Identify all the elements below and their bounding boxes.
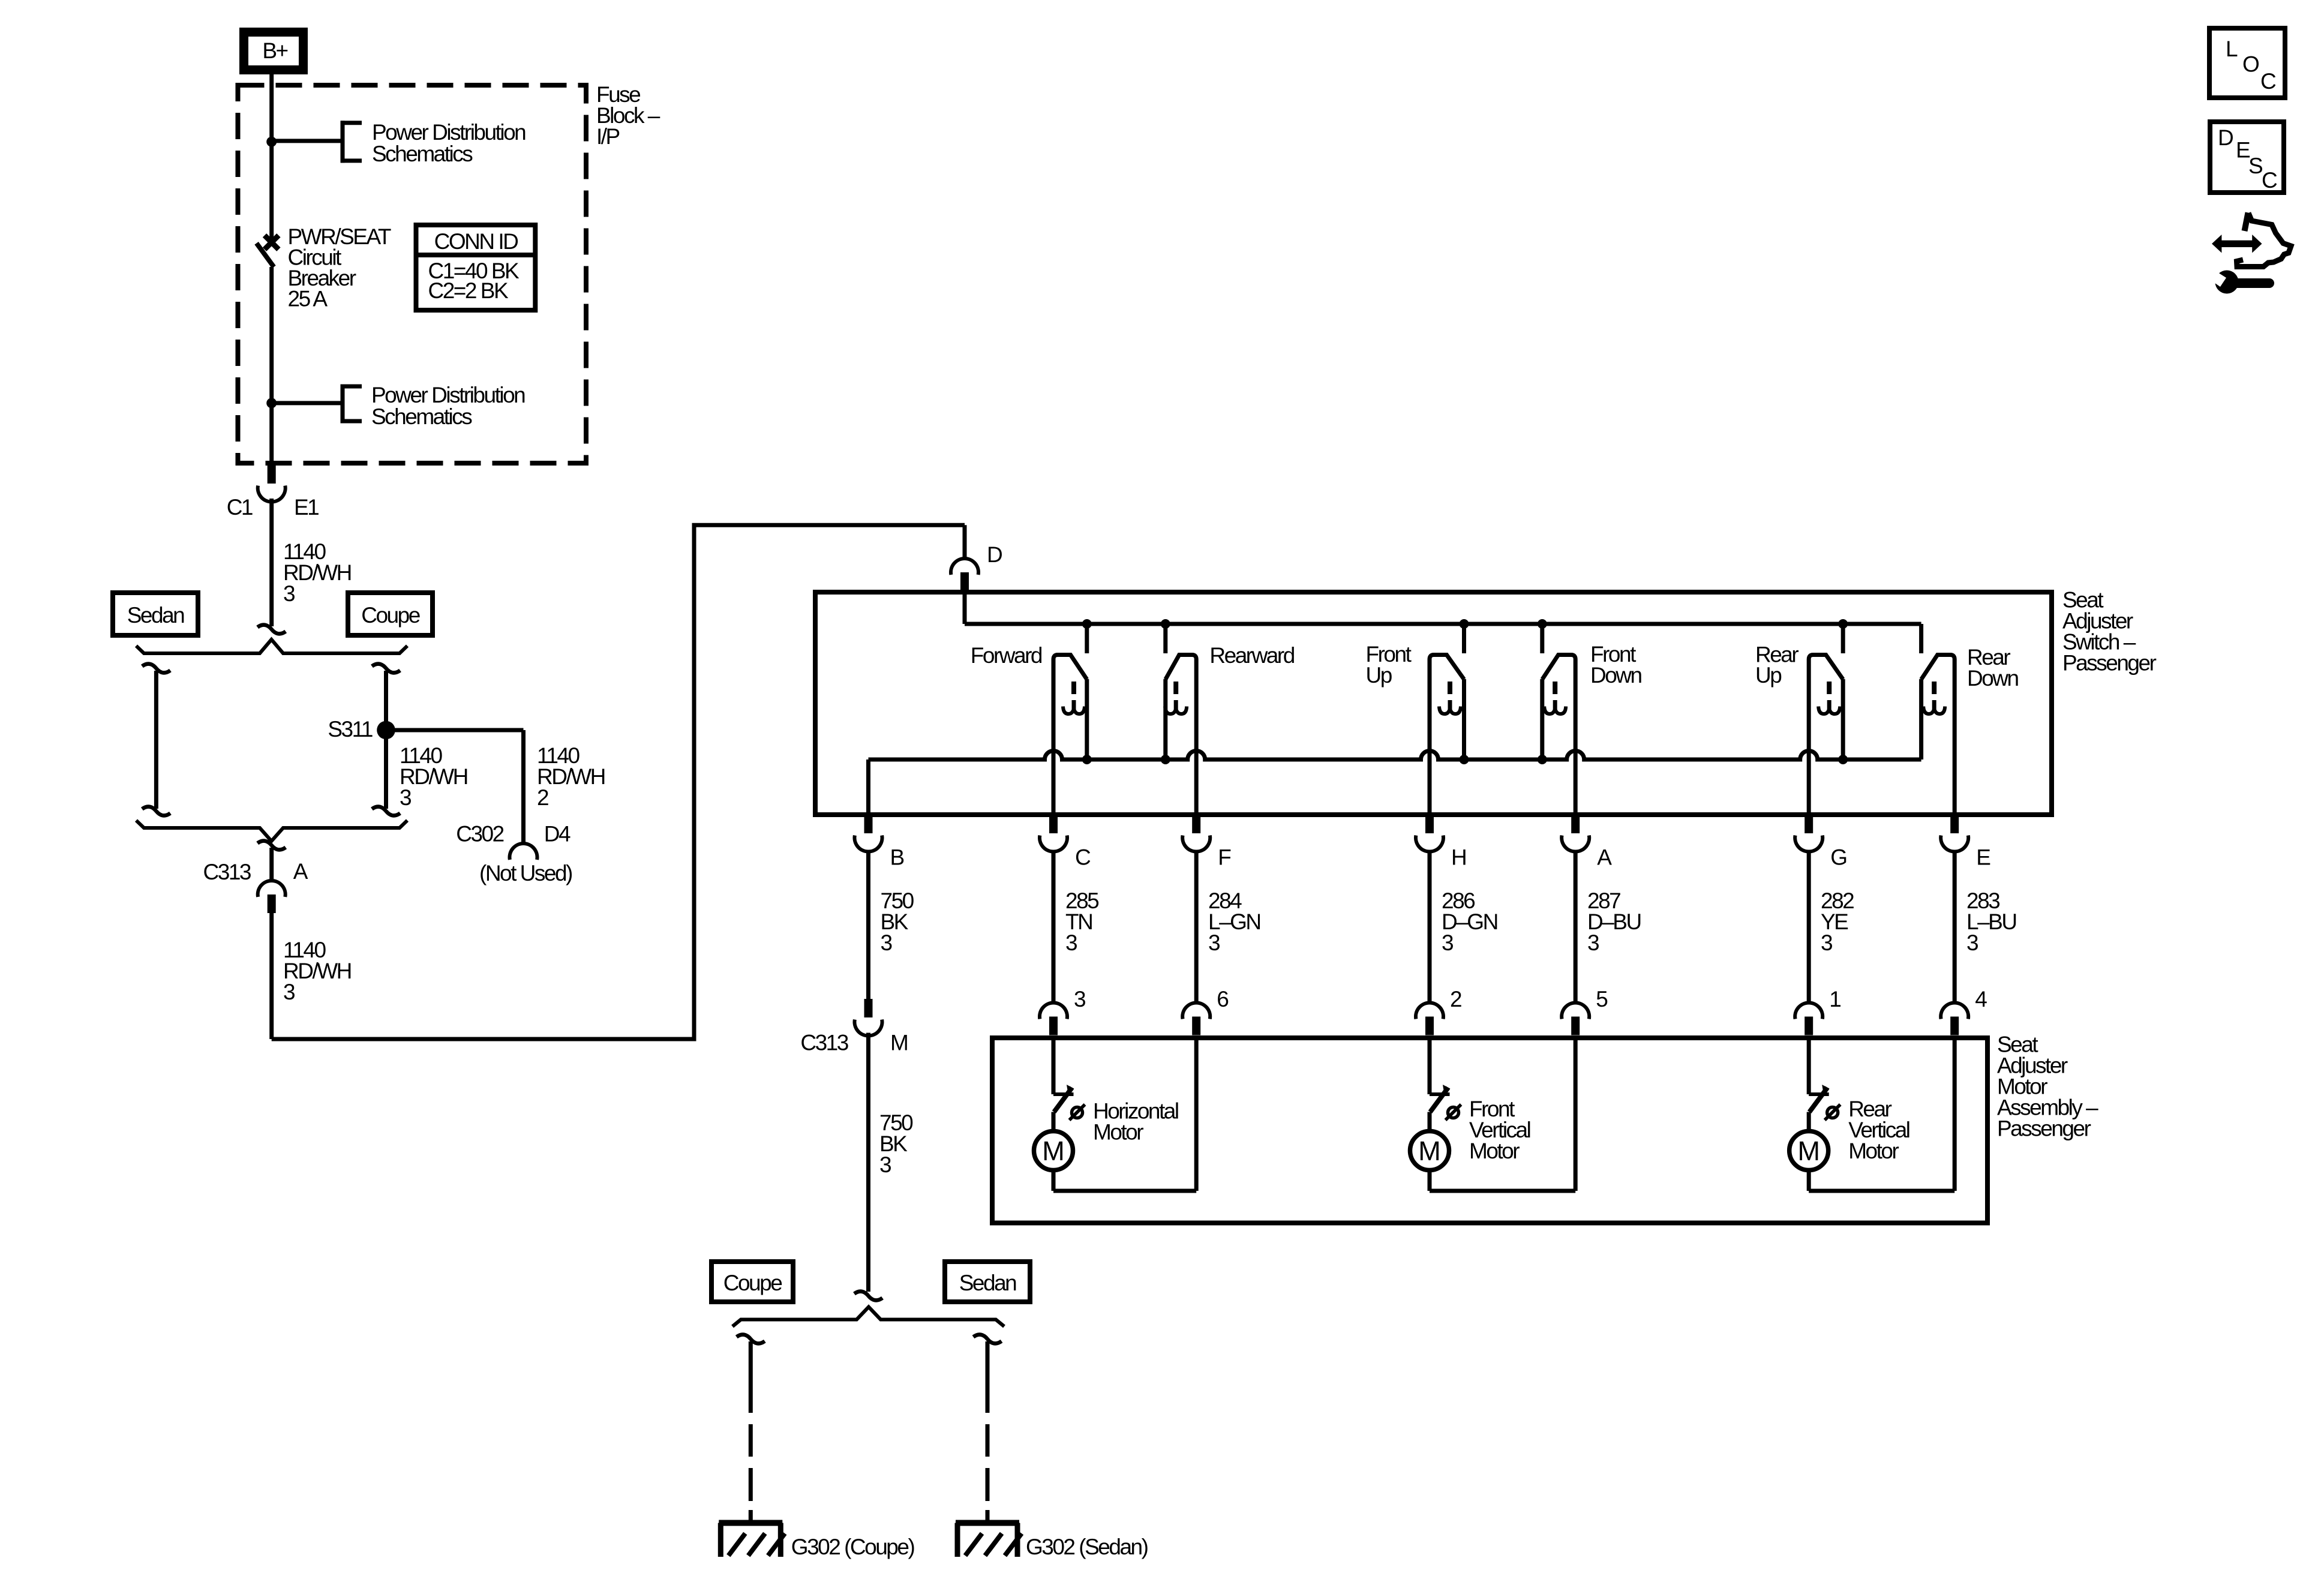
switch Front Up: [1430, 619, 1469, 815]
svg-text:D: D: [987, 542, 1002, 567]
wire S311 branch to C302: [386, 728, 524, 733]
Sedan option box (top): [113, 593, 198, 635]
switch Front Down: [1538, 619, 1575, 815]
option split brace (top): [136, 640, 407, 653]
connector motor assembly pin 6: [1182, 1003, 1210, 1035]
connector C302 D4 (not used): [510, 843, 538, 860]
connector C313/A: [258, 881, 286, 913]
svg-text:Motor: Motor: [1093, 1120, 1143, 1145]
svg-text:2: 2: [1450, 987, 1461, 1011]
svg-text:Forward: Forward: [971, 643, 1042, 668]
wire A to motor assembly: [1574, 851, 1578, 1002]
connector D (seat adjuster switch): [951, 559, 978, 591]
svg-text:3: 3: [1208, 930, 1220, 955]
wire ground branch dash: [986, 1424, 990, 1457]
option split brace (bottom): [732, 1307, 1004, 1327]
svg-text:Coupe: Coupe: [723, 1271, 782, 1295]
option merge brace: [136, 821, 407, 842]
svg-text:C2=2 BK: C2=2 BK: [428, 278, 509, 303]
wire sedan option branch: [154, 671, 158, 809]
svg-text:Motor: Motor: [1469, 1139, 1520, 1163]
wire option-break squiggle: [257, 841, 286, 850]
wire option-break squiggle: [372, 807, 400, 816]
svg-text:3: 3: [881, 930, 892, 955]
wire 1140 RD/WH from C1: [269, 499, 274, 626]
svg-text:Sedan: Sedan: [127, 603, 184, 628]
svg-text:L: L: [2226, 37, 2238, 61]
motor circuit Rear Vertical Motor: [1789, 1035, 1955, 1191]
wire F to motor assembly: [1194, 851, 1199, 1002]
LOC legend box: [2209, 28, 2285, 98]
wire C to motor assembly: [1052, 851, 1056, 1002]
svg-text:2: 2: [537, 785, 548, 810]
svg-text:M: M: [890, 1031, 907, 1055]
wire ground stub: [749, 1510, 753, 1525]
Sedan option box (bottom): [945, 1262, 1030, 1302]
wire D into switch: [963, 591, 967, 625]
svg-text:3: 3: [1966, 930, 1978, 955]
svg-text:3: 3: [283, 980, 295, 1004]
svg-text:Schematics: Schematics: [372, 142, 473, 166]
svg-text:F: F: [1218, 845, 1231, 870]
wrench icon: [2215, 271, 2239, 294]
connector motor assembly pin 3: [1040, 1003, 1067, 1035]
wire down to C302: [521, 730, 526, 845]
wire ground branch dash: [749, 1468, 753, 1501]
wire long run to switch feed D: [272, 525, 965, 1039]
wire 750 BK to C313/M: [866, 851, 870, 999]
switch Rear Down: [1921, 655, 1955, 815]
vehicle motion / service icon: [2211, 213, 2291, 294]
wire H to motor assembly: [1428, 851, 1432, 1002]
connector C2 pin H (switch output): [1416, 815, 1443, 851]
motor circuit Front Vertical Motor: [1410, 1035, 1576, 1191]
svg-text:E: E: [1976, 845, 1990, 870]
wire branch to power distribution (upper): [272, 139, 343, 143]
svg-text:C313: C313: [203, 860, 251, 884]
ground G302 (Coupe): [719, 1523, 785, 1557]
svg-text:3: 3: [400, 785, 411, 810]
svg-text:I/P: I/P: [596, 124, 620, 149]
svg-text:C1: C1: [227, 495, 253, 520]
connector C2 pin G (switch output): [1795, 815, 1822, 851]
wire option-break squiggle: [142, 807, 170, 816]
circuit breaker PWR/SEAT 25A contact X: [265, 235, 278, 249]
wire coupe option branch: [384, 671, 388, 809]
svg-text:D4: D4: [544, 822, 571, 846]
svg-text:3: 3: [283, 581, 295, 606]
CONN ID divider: [416, 253, 536, 257]
seat adjuster switch box: [815, 592, 2052, 815]
svg-text:C: C: [2260, 69, 2276, 94]
svg-text:O: O: [2242, 52, 2259, 76]
svg-text:CONN ID: CONN ID: [434, 229, 518, 254]
svg-text:3: 3: [1442, 930, 1453, 955]
svg-text:3: 3: [1587, 930, 1599, 955]
svg-text:6: 6: [1217, 987, 1228, 1011]
connector C2 pin E (switch output): [1941, 815, 1968, 851]
svg-text:E1: E1: [294, 495, 319, 520]
fuse block dashed border: [238, 85, 587, 463]
svg-text:3: 3: [1065, 930, 1077, 955]
wire ground branch dash: [749, 1424, 753, 1457]
svg-text:B: B: [890, 845, 904, 870]
Coupe option box (bottom): [711, 1262, 793, 1302]
wire option-break squiggle: [737, 1335, 765, 1344]
wire G to motor assembly: [1807, 851, 1811, 1002]
connector C1/E1 (fuse block to harness): [258, 465, 286, 502]
svg-text:Up: Up: [1755, 663, 1782, 688]
svg-text:M: M: [1418, 1136, 1441, 1166]
switch Rearward: [1161, 619, 1196, 815]
B+ battery feed box: [244, 32, 304, 70]
feed stub rear down: [1919, 624, 1923, 653]
svg-text:Schematics: Schematics: [371, 404, 472, 429]
wire option-break squiggle: [142, 664, 170, 673]
connector C2 pin B (switch output): [855, 815, 882, 851]
connector motor assembly pin 4: [1941, 1003, 1968, 1035]
svg-text:C: C: [2262, 168, 2277, 193]
wire option-break squiggle: [257, 625, 286, 634]
svg-text:G: G: [1830, 845, 1846, 870]
wire ground stub: [986, 1510, 990, 1525]
wire 1140 RD/WH below C313: [269, 913, 274, 1040]
wire B+ to circuit breaker: [269, 74, 274, 239]
svg-text:C: C: [1075, 845, 1091, 870]
svg-text:3: 3: [879, 1152, 891, 1177]
svg-text:M: M: [1797, 1136, 1820, 1166]
svg-text:Rearward: Rearward: [1209, 643, 1294, 668]
svg-text:25 A: 25 A: [288, 287, 328, 311]
svg-text:G302 (Sedan): G302 (Sedan): [1026, 1535, 1148, 1559]
splice S311: [377, 721, 395, 740]
svg-text:Coupe: Coupe: [361, 603, 419, 628]
connector motor assembly pin 5: [1562, 1003, 1589, 1035]
svg-text:1: 1: [1829, 987, 1840, 1011]
svg-text:4: 4: [1975, 987, 1987, 1011]
connector motor assembly pin 2: [1416, 1003, 1443, 1035]
svg-text:Passenger: Passenger: [1997, 1116, 2091, 1141]
svg-text:Power Distribution: Power Distribution: [372, 120, 526, 145]
connector C2 pin C (switch output): [1040, 815, 1067, 851]
svg-text:(Not Used): (Not Used): [479, 861, 572, 885]
svg-text:H: H: [1451, 845, 1466, 870]
svg-text:3: 3: [1821, 930, 1832, 955]
svg-text:C313: C313: [800, 1031, 848, 1055]
switch common bus (lower) with hops: [869, 751, 1921, 760]
svg-text:G302 (Coupe): G302 (Coupe): [791, 1535, 915, 1559]
connector C2 pin A (switch output): [1562, 815, 1589, 851]
wire breaker to connector C1: [269, 267, 274, 465]
svg-text:5: 5: [1596, 987, 1608, 1011]
Coupe option box (top): [348, 593, 433, 635]
bracket reference symbol upper: [341, 121, 362, 163]
wire merge to C313: [269, 848, 274, 880]
DESC legend box: [2210, 122, 2284, 193]
svg-text:M: M: [1042, 1136, 1065, 1166]
switch Forward: [1053, 619, 1092, 815]
bracket reference symbol lower: [341, 385, 362, 424]
svg-text:Passenger: Passenger: [2062, 650, 2157, 675]
wire branch to power distribution (lower): [272, 401, 343, 405]
circuit breaker blade: [257, 243, 274, 267]
svg-text:Power Distribution: Power Distribution: [371, 383, 525, 407]
wire E to motor assembly: [1953, 851, 1957, 1002]
wire ground branch solid: [749, 1341, 753, 1413]
junction dot upper: [266, 137, 277, 147]
svg-text:A: A: [293, 859, 308, 884]
wire option-break squiggle: [974, 1335, 1002, 1344]
wire ground branch dash: [986, 1468, 990, 1501]
switch feed bus (top): [965, 622, 1921, 626]
svg-text:3: 3: [1074, 987, 1085, 1011]
ground G302 (Sedan): [956, 1523, 1022, 1557]
CONN ID box: [416, 225, 536, 310]
connector motor assembly pin 1: [1795, 1003, 1822, 1035]
svg-text:D: D: [2218, 125, 2233, 150]
wire down to connector D: [963, 525, 967, 558]
svg-text:B+: B+: [262, 38, 287, 63]
seat adjuster motor assembly box: [992, 1038, 1987, 1223]
wire option-break squiggle: [372, 664, 400, 673]
svg-text:Sedan: Sedan: [959, 1271, 1016, 1295]
motor circuit Horizontal Motor: [1034, 1035, 1197, 1191]
wire bus to connector B: [866, 760, 870, 815]
connector C313/M: [855, 999, 882, 1035]
svg-text:Down: Down: [1590, 663, 1642, 688]
svg-text:S311: S311: [328, 717, 373, 742]
svg-text:A: A: [1597, 845, 1612, 870]
wire ground branch solid: [986, 1341, 990, 1413]
svg-text:Down: Down: [1967, 666, 2019, 691]
svg-text:Up: Up: [1366, 663, 1392, 688]
svg-text:C302: C302: [456, 822, 503, 846]
connector C2 pin F (switch output): [1182, 815, 1210, 851]
wire 750 BK to ground split: [866, 1033, 870, 1292]
svg-text:Motor: Motor: [1848, 1139, 1899, 1163]
junction dot lower: [266, 398, 277, 408]
switch Rear Up: [1809, 619, 1848, 815]
svg-text:S: S: [2248, 154, 2262, 178]
wire option-break squiggle: [854, 1292, 882, 1301]
